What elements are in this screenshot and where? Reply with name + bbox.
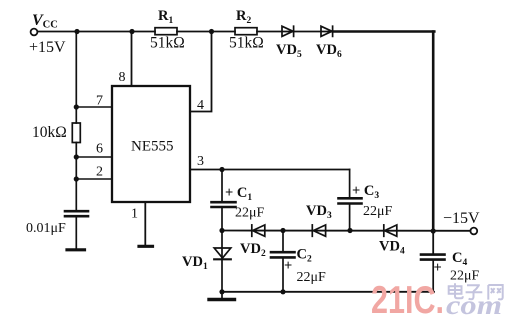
capacitor C2 bbox=[271, 252, 295, 257]
svg-text:7: 7 bbox=[96, 94, 103, 109]
junction: bottom rail at C2 bbox=[280, 289, 285, 294]
watermark 电子网 bbox=[449, 283, 503, 299]
junction: C1 top on pin 3 wire bbox=[219, 167, 224, 172]
capacitor 0.01uF bbox=[65, 211, 88, 216]
diode VD6 bbox=[321, 26, 333, 36]
resistor 10kΩ bbox=[72, 123, 80, 143]
wire 0.01uF to ground bbox=[75, 216, 77, 249]
ground (0.01uF) bbox=[67, 248, 85, 251]
svg-text:8: 8 bbox=[119, 70, 126, 85]
svg-text:10kΩ: 10kΩ bbox=[32, 124, 67, 141]
wire pin 2 bbox=[76, 178, 112, 180]
svg-text:6: 6 bbox=[96, 142, 103, 157]
wire pin 4 bbox=[190, 32, 212, 112]
svg-text:+15V: +15V bbox=[29, 39, 66, 56]
svg-text:1: 1 bbox=[131, 207, 138, 222]
wire C4 bottom lead bbox=[432, 260, 434, 292]
svg-text:+: + bbox=[284, 258, 292, 274]
wire top rail: R2 to VD5 bbox=[257, 31, 333, 33]
junction: C3 bottom bbox=[347, 228, 352, 233]
capacitor C1 bbox=[212, 202, 236, 207]
wire stub to ground bbox=[221, 292, 223, 299]
junction: pin 6 branch bbox=[74, 154, 79, 159]
junction: pin 4 riser on top rail bbox=[209, 29, 214, 34]
ground (bottom rail) bbox=[209, 298, 235, 301]
junction: bottom rail at VD1 bbox=[219, 289, 224, 294]
svg-text:3: 3 bbox=[197, 154, 204, 169]
wire right vertical rail bbox=[432, 32, 435, 232]
wire bottom rail bbox=[222, 291, 434, 293]
resistor R2 bbox=[235, 28, 257, 35]
terminal Vcc bbox=[31, 29, 38, 36]
wire diode row: C1 to -15V terminal bbox=[222, 230, 470, 232]
junction: pin 2 branch bbox=[74, 176, 79, 181]
junction: pin 7 branch bbox=[74, 104, 79, 109]
capacitor C3 bbox=[339, 198, 362, 203]
svg-text:0.01μF: 0.01μF bbox=[26, 221, 66, 236]
wire top rail: Vcc terminal to R1 bbox=[38, 31, 155, 33]
wire top rail: R1 to R2 bbox=[177, 31, 235, 33]
diode VD5 bbox=[282, 26, 294, 36]
junction: diode row at C1 bbox=[219, 228, 224, 233]
svg-text:21IC.: 21IC. bbox=[371, 279, 444, 322]
wire C3 bottom lead bbox=[349, 204, 351, 231]
wire pin 7 bbox=[76, 106, 112, 108]
resistor R1 bbox=[155, 28, 177, 35]
wire pin3 corner down to C3 bbox=[349, 170, 351, 199]
svg-text:51kΩ: 51kΩ bbox=[229, 35, 264, 52]
wire C1 top lead bbox=[221, 170, 223, 202]
wire pin 1 bbox=[144, 202, 146, 246]
capacitor C4 bbox=[421, 255, 445, 260]
wire pin 3 bbox=[190, 169, 350, 171]
wire pin 8 bbox=[131, 32, 133, 87]
wire left branch vertical (top rail to 10k resistor) bbox=[75, 32, 77, 124]
junction: left branch on top rail bbox=[74, 29, 79, 34]
wire top rail: VD6 to top-right corner bbox=[333, 30, 434, 33]
diode VD4 bbox=[384, 225, 397, 236]
diode VD1 bbox=[214, 231, 231, 260]
terminal -15V bbox=[470, 228, 477, 235]
svg-text:22μF: 22μF bbox=[297, 270, 327, 285]
wire C2 bottom lead bbox=[282, 257, 284, 292]
svg-text:22μF: 22μF bbox=[363, 204, 393, 219]
junction: right rail and C4 bbox=[431, 228, 436, 233]
wire VD1 to bottom rail bbox=[221, 259, 223, 292]
diode VD2 bbox=[252, 225, 265, 236]
svg-text:−15V: −15V bbox=[443, 210, 480, 227]
svg-text:+: + bbox=[434, 260, 442, 276]
svg-text:4: 4 bbox=[197, 98, 204, 113]
wire right rail to C4 bbox=[432, 231, 434, 254]
diode VD3 bbox=[312, 225, 325, 236]
svg-text:22μF: 22μF bbox=[235, 206, 265, 221]
wire left branch vertical (10k resistor to 0.01uF cap) bbox=[75, 143, 77, 211]
svg-text:51kΩ: 51kΩ bbox=[150, 35, 185, 52]
wire C1 bottom lead bbox=[221, 207, 223, 231]
svg-text:2: 2 bbox=[96, 165, 103, 180]
junction: pin 8 on top rail bbox=[129, 29, 134, 34]
wire C2 top lead bbox=[282, 231, 284, 252]
IC U1 NE555 timer bbox=[112, 86, 190, 202]
ground (pin 1) bbox=[139, 245, 153, 248]
wire pin 6 bbox=[76, 156, 112, 158]
junction: C2 top bbox=[280, 228, 285, 233]
svg-text:NE555: NE555 bbox=[131, 139, 174, 155]
svg-text:com: com bbox=[446, 290, 502, 320]
svg-text:22μF: 22μF bbox=[450, 269, 480, 284]
